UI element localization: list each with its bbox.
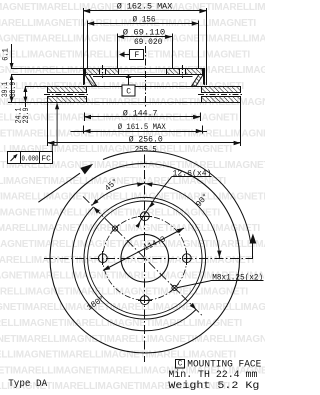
section: vent channel centerline right <box>198 94 244 96</box>
svg-text:MAGNETIMARELLIMAGNETIMARELLIMA: MAGNETIMARELLIMAGNETIMARELLIMAGNETIMAREL… <box>0 334 265 345</box>
svg-text:Ø 144.7: Ø 144.7 <box>123 108 158 118</box>
dimension 6.1 dim line with outside arrows <box>11 44 13 69</box>
dimension 12.6 leader polyline <box>137 177 172 227</box>
dimension 6.1 extension lines <box>12 68 83 70</box>
note C mounting face box <box>176 360 185 369</box>
section: friction ring left plate upper hatched <box>48 87 87 93</box>
section: bolt hole centerline left <box>102 65 104 78</box>
section: bolt hole centerline right <box>182 65 184 78</box>
svg-text:MAGNETIMARELLIMAGNETIMARELLIMA: MAGNETIMARELLIMAGNETIMARELLIMAGNETIMAREL… <box>0 239 265 250</box>
svg-text:38.9: 38.9 <box>9 82 18 97</box>
section: ring top edge line with left extension <box>25 86 240 88</box>
front view: hole W tick <box>102 251 104 265</box>
runout feature control frame <box>8 152 53 164</box>
angular dimension 180deg arc <box>72 207 196 331</box>
dimension 39.1/38.9 dim line <box>11 74 13 103</box>
rotation span arc <box>103 151 251 243</box>
dimension diameter 162.5 MAX right extension <box>206 8 208 85</box>
svg-text:FC: FC <box>41 156 51 164</box>
svg-text:F: F <box>134 51 139 60</box>
front view: wheel bolt hole N <box>140 212 149 221</box>
front view: hole E tick <box>186 251 188 265</box>
front view: vertical centerline <box>144 155 146 363</box>
svg-text:Ø 156: Ø 156 <box>133 14 156 24</box>
front view: wheel bolt hole S <box>140 296 149 305</box>
dimension diameter 69.110/69.020 <box>117 34 119 70</box>
svg-text:6.1: 6.1 <box>1 48 10 61</box>
svg-text:MAGNETIMARELLIMAGNETIMARELLIMA: MAGNETIMARELLIMAGNETIMARELLIMAGNETIMAREL… <box>0 223 260 234</box>
svg-text:255.5: 255.5 <box>135 146 157 155</box>
section: hat wall left hatched tube <box>85 75 97 87</box>
svg-text:MAGNETIMARELLIMAGNETIMARELLIMA: MAGNETIMARELLIMAGNETIMARELLIMAGNETIMAREL… <box>0 255 254 266</box>
svg-text:Type DA: Type DA <box>8 378 47 389</box>
datum F triangle leader <box>119 52 125 58</box>
label M8 leader <box>178 281 211 288</box>
front view: hole N tick <box>138 216 152 218</box>
front view: outer circle <box>50 163 240 353</box>
svg-text:Min. TH 22.4 mm: Min. TH 22.4 mm <box>168 369 257 380</box>
section: plate top continuous line <box>83 68 205 70</box>
front view: bolt PCD circle <box>103 216 187 300</box>
section: hat plate hatched left inner <box>106 69 119 75</box>
section: hat outer edge double line right <box>204 69 206 85</box>
svg-text:Ø 256.0: Ø 256.0 <box>129 135 163 145</box>
section: bore far-side line <box>93 76 193 78</box>
angular dimension 45deg arc <box>92 183 145 205</box>
svg-text:MAGNETIMARELLIMAGNETIMARELLIMA: MAGNETIMARELLIMAGNETIMARELLIMAGNETIMAREL… <box>0 113 238 124</box>
section: ring bottom edge line with left extension <box>8 102 241 104</box>
rotation arc E big arrow and tail <box>250 234 257 244</box>
svg-text:23.9: 23.9 <box>22 107 31 123</box>
svg-text:Ø 69.110: Ø 69.110 <box>123 28 166 38</box>
svg-text:MOUNTING FACE: MOUNTING FACE <box>187 359 261 370</box>
dimension diameter 256.0 over 255.5 <box>47 103 49 146</box>
front view: hat circle <box>84 197 206 319</box>
section: friction ring left plate lower hatched <box>48 97 87 103</box>
section: mounting face continuous line <box>85 74 203 76</box>
section: hat plate hatched right outer <box>186 69 203 75</box>
dimension diameter 162.5 MAX <box>83 8 85 69</box>
datum C triangle and leader <box>126 75 132 79</box>
section: hat plate hatched right inner <box>167 69 180 75</box>
angular dimension 90deg arc <box>145 184 220 259</box>
front view: wheel bolt hole W <box>98 254 107 263</box>
datum C box <box>122 85 135 96</box>
svg-text:Weight 5.2 Kg: Weight 5.2 Kg <box>168 380 259 391</box>
dimension diameter 161.5 MAX <box>83 126 85 134</box>
svg-text:C: C <box>126 88 131 97</box>
dimension diameter 156 <box>87 21 89 70</box>
dimension 114.3 line <box>103 228 184 271</box>
front view: hub face circle <box>88 201 202 315</box>
dimension 24.1/23.9 dim line <box>25 86 27 107</box>
front view: center bore circle <box>121 234 169 282</box>
front view: M8 hole SE with cross <box>172 285 177 290</box>
svg-text:M8x1.25(x2): M8x1.25(x2) <box>212 273 263 283</box>
runout FCF leader with arrow at ring bottom <box>52 104 57 152</box>
front view: horizontal centerline <box>44 258 253 260</box>
svg-text:Ø 161.5 MAX: Ø 161.5 MAX <box>118 122 166 132</box>
svg-text:C: C <box>178 360 183 369</box>
section: friction ring right plate upper hatched <box>202 87 241 93</box>
section: axis centerline <box>145 46 147 107</box>
dimension diameter 144.7 <box>84 113 86 122</box>
svg-text:0.080: 0.080 <box>22 156 39 164</box>
rotation tangent tail with big arrow NW <box>38 173 80 202</box>
front view: wheel bolt hole E <box>182 254 191 263</box>
front view: 45deg diagonal centerline <box>83 196 202 315</box>
section: hat plate hatched left outer <box>86 69 100 75</box>
svg-text:69.020: 69.020 <box>134 38 163 47</box>
section: hat wall right hatched tube <box>192 75 204 87</box>
svg-text:114.3: 114.3 <box>143 235 168 253</box>
svg-text:Ø 162.5 MAX: Ø 162.5 MAX <box>117 2 173 12</box>
front view: hole S tick <box>138 300 152 302</box>
datum F box <box>130 50 144 60</box>
section: vent channel centerline left <box>44 94 90 96</box>
svg-text:MAGNETIMARELLIMAGNETIMARELLIMA: MAGNETIMARELLIMAGNETIMARELLIMAGNETIMAREL… <box>0 286 248 297</box>
section: hat outer edge double line left <box>83 69 85 85</box>
section: friction ring right plate lower hatched <box>202 97 241 103</box>
front view: M8 hole NW with cross <box>113 226 118 231</box>
